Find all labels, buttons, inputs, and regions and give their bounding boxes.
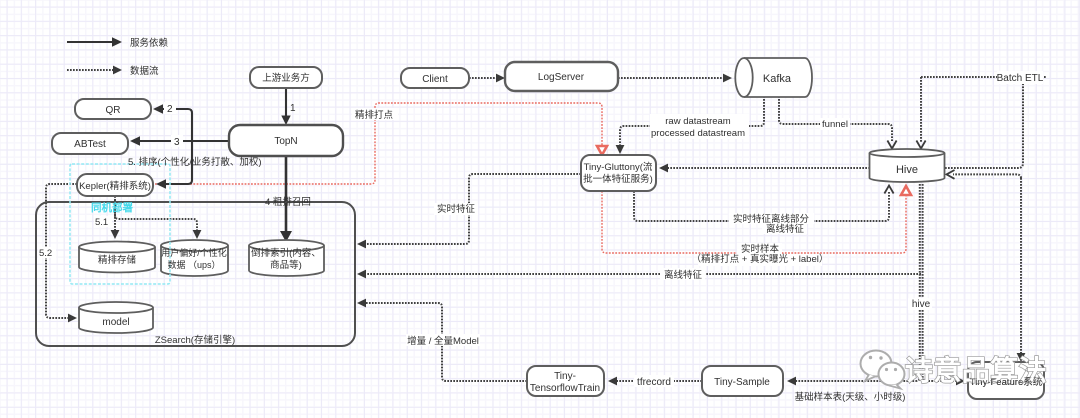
wire Client -> LogServer bbox=[469, 77, 500, 79]
svg-text:Client: Client bbox=[422, 74, 448, 85]
svg-text:倒排索引(内容、: 倒排索引(内容、 bbox=[251, 247, 321, 259]
arrowhead into Tiny-Gluttony top (from Kafka) bbox=[616, 145, 625, 154]
arrowhead into ZSearch right (增量/全量Model) bbox=[357, 299, 366, 308]
arrowhead into 用户偏好 top bbox=[193, 230, 202, 239]
svg-text:数据 （ups）: 数据 （ups） bbox=[167, 259, 220, 270]
cylinder Hive bbox=[870, 153, 945, 182]
arrowhead into Hive top (funnel) open bbox=[887, 141, 896, 149]
svg-text:精排存储: 精排存储 bbox=[98, 254, 137, 266]
wire Kepler -> 用户偏好 cylinder bbox=[115, 200, 197, 233]
box Client bbox=[401, 68, 469, 88]
bg raw/processed bbox=[820, 118, 850, 130]
bg 5.1 bbox=[38, 247, 56, 258]
svg-text:Kepler(精排系统): Kepler(精排系统) bbox=[79, 180, 151, 192]
arrowhead legend solid bbox=[112, 37, 122, 47]
wire legend dotted arrow bbox=[67, 69, 117, 71]
wire Kafka -> Tiny-Gluttony (raw/processed datastream) bbox=[620, 96, 764, 148]
svg-text:raw datastream: raw datastream bbox=[665, 116, 731, 127]
svg-text:同机部署: 同机部署 bbox=[91, 201, 133, 214]
box LogServer bbox=[505, 62, 618, 91]
wire Tiny-Sample -> Tiny-TensorflowTrain (tfrecord) bbox=[614, 380, 702, 382]
arrowhead into Kafka bbox=[723, 74, 732, 83]
arrowhead into Kepler right (5) bbox=[156, 179, 166, 189]
arrowhead into Hive right (from Tiny-Feature) open bbox=[947, 170, 955, 179]
cylinder 用户偏好/个性化数据(ups) bbox=[161, 246, 228, 277]
box TopN bbox=[229, 125, 343, 156]
box texts bbox=[74, 72, 1043, 394]
svg-text:3: 3 bbox=[174, 137, 180, 148]
wire Kepler -> 精排存储 (5.1) bbox=[114, 196, 116, 233]
wire TopN -> 倒排索引 (4) bbox=[285, 156, 288, 234]
bg funnel bbox=[997, 71, 1043, 84]
svg-text:processed datastream: processed datastream bbox=[651, 128, 745, 139]
wire 上游业务方 -> TopN (1) bbox=[285, 88, 287, 120]
wire TopN -> Kepler (5) bbox=[161, 141, 192, 184]
bg Batch ETL bbox=[729, 213, 814, 224]
box QR bbox=[75, 99, 151, 119]
svg-text:1: 1 bbox=[290, 103, 296, 114]
svg-text:5.1: 5.1 bbox=[95, 217, 108, 228]
arrowhead into Tiny-Sample right bbox=[787, 377, 796, 386]
bg tfrecord bbox=[94, 216, 112, 227]
svg-text:精排打点: 精排打点 bbox=[355, 109, 394, 121]
bg 精排打点 bbox=[650, 114, 749, 139]
wire red: Kepler -> Tiny-Gluttony (精排打点) bbox=[155, 103, 602, 184]
svg-text:5. 排序(个性化/业务打散、加权): 5. 排序(个性化/业务打散、加权) bbox=[128, 156, 262, 168]
svg-text:2: 2 bbox=[167, 104, 173, 115]
wire TopN trunk left bbox=[192, 140, 229, 142]
svg-text:QR: QR bbox=[106, 105, 121, 116]
svg-text:hive: hive bbox=[912, 299, 931, 310]
watermark wechat icon bbox=[861, 351, 905, 389]
svg-text:基础样本表(天级、小时级): 基础样本表(天级、小时级) bbox=[795, 391, 906, 403]
svg-text:funnel: funnel bbox=[822, 119, 848, 130]
arrowhead into Tiny-Feature left bbox=[956, 377, 965, 386]
arrowhead red open into Hive bottom bbox=[901, 186, 911, 195]
wire Tiny-Feature <-> Hive vertical corridor bbox=[1020, 178, 1022, 356]
cylinder Kafka (horizontal) bbox=[744, 58, 812, 97]
wire legend solid arrow bbox=[67, 41, 116, 43]
bg 实时样本 bbox=[698, 254, 822, 266]
svg-text:Tiny-Sample: Tiny-Sample bbox=[714, 377, 770, 388]
svg-text:Tiny-Feature系统: Tiny-Feature系统 bbox=[970, 376, 1043, 388]
svg-text:Batch ETL: Batch ETL bbox=[997, 73, 1044, 84]
wire Kepler -> model (5.2) bbox=[46, 184, 77, 318]
wire Batch ETL loop: Hive right up bbox=[945, 82, 1023, 168]
svg-text:Tiny-Gluttony(流: Tiny-Gluttony(流 bbox=[584, 161, 653, 173]
wire Tiny-Gluttony -> Hive (实时特征离线部分) bbox=[634, 191, 889, 221]
svg-text:离线特征: 离线特征 bbox=[766, 223, 805, 235]
wire Batch ETL loop: down into Hive top bbox=[920, 77, 922, 142]
wire 离线特征 long line -> ZSearch bbox=[363, 273, 921, 275]
svg-text:5.2: 5.2 bbox=[39, 248, 52, 259]
wire hive vertical corridor down (double line b) bbox=[923, 184, 959, 381]
arrowhead into ZSearch right (离线特征) bbox=[357, 270, 366, 279]
box ABTest bbox=[52, 133, 128, 154]
svg-text:（精排打点 + 真实曝光 + label）: （精排打点 + 真实曝光 + label） bbox=[692, 253, 829, 265]
arrowhead up into Hive bottom (实时特征离线部分) open bbox=[884, 186, 893, 194]
wire TopN -> ABTest (3) bbox=[135, 140, 192, 142]
svg-text:tfrecord: tfrecord bbox=[637, 377, 671, 388]
wire LogServer -> Kafka bbox=[618, 77, 726, 79]
arrowhead into ABTest right (3) bbox=[130, 136, 140, 146]
svg-text:Hive: Hive bbox=[896, 164, 918, 176]
wire Tiny-TensorflowTrain -> ZSearch (增量/全量Model) bbox=[363, 303, 527, 381]
box Tiny-Feature系统 bbox=[968, 362, 1044, 399]
svg-text:model: model bbox=[102, 317, 129, 328]
box ZSearch(存储引擎) container bbox=[36, 202, 355, 346]
wire corridor top corner into Hive right bbox=[953, 174, 1021, 178]
bg (精排打点+...) bbox=[660, 268, 705, 280]
arrowhead legend dotted bbox=[113, 66, 122, 75]
svg-text:TensorflowTrain: TensorflowTrain bbox=[530, 383, 600, 394]
svg-text:实时特征: 实时特征 bbox=[437, 203, 476, 215]
bg 实时特征离线部分 bbox=[762, 223, 807, 234]
svg-text:增量 / 全量Model: 增量 / 全量Model bbox=[407, 335, 479, 347]
arrowhead into QR right (2) bbox=[153, 104, 163, 114]
svg-text:LogServer: LogServer bbox=[538, 72, 585, 83]
arrowhead into Tiny-Gluttony right bbox=[659, 164, 668, 173]
arrowhead into LogServer bbox=[496, 74, 505, 83]
box Kepler(精排系统) bbox=[77, 174, 153, 196]
arrowhead into 精排存储 top (5.1) bbox=[111, 230, 120, 239]
wire Hive -> Tiny-Gluttony (offline features to service) bbox=[665, 167, 870, 169]
arrowhead into ZSearch right (实时特征) bbox=[357, 240, 366, 249]
wire red: Tiny-Gluttony -> Hive (实时样本) bbox=[602, 191, 906, 253]
box 上游业务方 bbox=[250, 67, 322, 88]
svg-text:ABTest: ABTest bbox=[74, 139, 106, 150]
svg-text:ZSearch(存储引擎): ZSearch(存储引擎) bbox=[155, 334, 235, 346]
svg-text:服务依赖: 服务依赖 bbox=[130, 37, 169, 49]
arrowhead into model left (5.2) bbox=[68, 314, 77, 323]
arrowhead into Tiny-TensorflowTrain right bbox=[608, 377, 617, 386]
cylinder 精排存储 bbox=[79, 247, 155, 273]
arrowhead into TopN top (1) bbox=[281, 116, 290, 126]
box Tiny-Sample bbox=[702, 366, 783, 396]
wire Kafka -> Hive (funnel) bbox=[779, 96, 892, 142]
bg 离线特征 bbox=[434, 203, 478, 215]
box Tiny-TensorflowTrain bbox=[527, 366, 604, 396]
wire Hive -> Batch ETL loop top bbox=[921, 76, 1046, 78]
box 同机部署 cyan dashed bbox=[70, 164, 170, 284]
svg-text:Kafka: Kafka bbox=[763, 73, 792, 85]
bg hive bbox=[406, 334, 480, 346]
arrowheads for dotted wires (filled) bbox=[68, 66, 1025, 386]
arrowhead red open into Tiny-Gluttony top bbox=[597, 146, 607, 155]
bg 3 bbox=[352, 108, 398, 120]
svg-text:Tiny-: Tiny- bbox=[554, 371, 576, 382]
arrowhead into Hive top (Batch ETL) open bbox=[916, 141, 925, 149]
svg-text:商品等): 商品等) bbox=[270, 259, 302, 271]
cylinder model bbox=[79, 308, 153, 334]
wire hive vertical corridor down (double line a) bbox=[793, 184, 920, 381]
svg-text:批一体特征服务): 批一体特征服务) bbox=[583, 173, 653, 185]
svg-text:数据流: 数据流 bbox=[130, 65, 159, 77]
bg 实时特征 bbox=[908, 298, 932, 310]
bg 离线特征2 bbox=[737, 243, 782, 255]
svg-text:用户偏好/个性化: 用户偏好/个性化 bbox=[161, 247, 227, 258]
svg-text:4 粗排召回: 4 粗排召回 bbox=[265, 196, 311, 208]
svg-text:TopN: TopN bbox=[274, 136, 297, 147]
svg-text:离线特征: 离线特征 bbox=[664, 269, 703, 281]
bg 增量/全量Model bbox=[634, 375, 674, 387]
wire Tiny-Gluttony -> ZSearch (实时特征) bbox=[363, 174, 581, 244]
arrowhead down into Tiny-Feature top bbox=[1017, 353, 1026, 362]
wire TopN -> QR (2) bbox=[158, 109, 192, 141]
box Tiny-Gluttony bbox=[581, 155, 656, 191]
label backgrounds (white) bbox=[38, 71, 1043, 387]
bg 2 bbox=[171, 135, 183, 147]
arrowhead into 倒排索引 top (4) bbox=[280, 231, 292, 242]
cylinder 倒排索引(内容、商品等) bbox=[249, 246, 324, 277]
svg-text:上游业务方: 上游业务方 bbox=[262, 72, 310, 84]
